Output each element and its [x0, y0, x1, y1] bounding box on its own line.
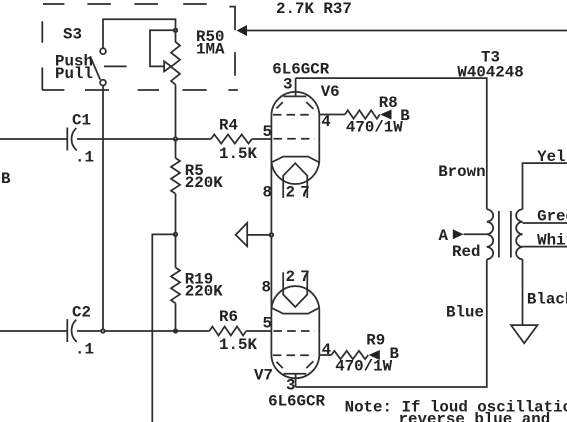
svg-text:7: 7: [300, 184, 309, 202]
heater / pins 2,7 of V7: [283, 272, 307, 307]
svg-text:reverse blue and: reverse blue and: [399, 411, 551, 422]
screen grid (pin 4) dashes V7: [273, 354, 314, 356]
switch S3: [100, 48, 106, 54]
wire switch top terminal to R50 top: [103, 19, 176, 48]
transformer T3 secondary winding: [516, 209, 522, 259]
svg-text:Yell: Yell: [537, 148, 567, 166]
svg-text:1.5K: 1.5K: [219, 336, 257, 354]
svg-text:R6: R6: [219, 308, 238, 326]
svg-text:Brown: Brown: [438, 163, 485, 181]
tube V7 6L6GCR envelope: [271, 286, 319, 309]
beam plate dashes V7: [276, 361, 313, 368]
transformer T3 core: [499, 211, 511, 258]
wire switch bottom terminal down to C2 line: [102, 86, 104, 331]
cathode V7: [271, 308, 319, 314]
svg-text:V6: V6: [321, 83, 340, 101]
svg-text:Pull: Pull: [55, 65, 93, 83]
cathode V6: [271, 157, 319, 163]
svg-text:470/1W: 470/1W: [346, 119, 403, 137]
R50 wiper arm and arrow: [150, 30, 176, 66]
wire secondary bottom lead (Black): [522, 259, 524, 325]
svg-text:1MA: 1MA: [196, 41, 225, 59]
svg-text:W404248: W404248: [457, 64, 523, 82]
capacitor C2: [66, 319, 68, 342]
wire node to bias rail (down to bottom edge): [152, 234, 175, 422]
arrow (open) cathode net: [236, 223, 248, 246]
svg-text:220K: 220K: [185, 283, 223, 301]
svg-text:2: 2: [286, 268, 295, 286]
svg-text:6L6GCR: 6L6GCR: [272, 61, 329, 79]
arrow (filled) pointing left into box, net R37: [237, 25, 248, 36]
svg-text:3: 3: [283, 76, 292, 94]
svg-text:4: 4: [321, 113, 331, 131]
heater / pins 2,7 of V6: [283, 163, 307, 198]
tube V6 6L6GCR envelope: [271, 92, 319, 114]
ground (secondary black lead): [511, 325, 538, 343]
resistor R4: [211, 135, 252, 144]
svg-text:2: 2: [286, 184, 295, 202]
control grid (pin 5) dashes V6: [274, 138, 315, 140]
wire cathode node to net arrow: [247, 234, 271, 236]
svg-text:470/1W: 470/1W: [335, 358, 392, 376]
plate (pin 3) of V7: [284, 373, 307, 375]
wire secondary top lead (Yellow): [523, 163, 567, 209]
arrow (filled) net B at R9: [369, 350, 380, 360]
svg-text:.1: .1: [75, 341, 94, 359]
wire from R37 (to right edge): [247, 30, 567, 32]
arrow (filled) net B at R8: [380, 110, 391, 120]
svg-text:R9: R9: [366, 332, 385, 350]
svg-text:C2: C2: [72, 304, 91, 322]
wire primary center tap: [464, 233, 487, 235]
svg-text:220K: 220K: [185, 174, 223, 192]
junction R5 / R19 node: [174, 233, 177, 236]
potentiometer R50 1MA: [171, 42, 180, 85]
wire R6 to V7 pin 5: [246, 330, 271, 332]
svg-text:8: 8: [262, 279, 271, 297]
resistor R19 220K: [171, 268, 180, 304]
svg-text:Black: Black: [527, 291, 567, 309]
corner solid piece top-right of box: [229, 7, 235, 31]
svg-text:3: 3: [286, 377, 295, 395]
svg-text:R8: R8: [379, 94, 398, 112]
junction R19 / C2 node: [174, 329, 177, 332]
svg-text:Whit: Whit: [537, 232, 567, 250]
transformer T3 primary winding: [487, 209, 493, 259]
screen grid (pin 4) dashes V6: [273, 114, 314, 116]
svg-text:S3: S3: [63, 26, 82, 44]
junction R4 / R5 / R50 node: [174, 137, 177, 140]
junction: R50 top / wiper / switch wire: [174, 29, 177, 32]
beam plate dashes V6: [276, 102, 313, 109]
svg-text:2.7K R37: 2.7K R37: [276, 0, 352, 18]
svg-text:C1: C1: [72, 112, 91, 130]
resistor R5 220K: [171, 158, 180, 194]
wire input to C1: [0, 138, 67, 140]
wire R4 to V6 pin 5: [252, 138, 272, 140]
resistor R6: [209, 327, 246, 336]
wire V7 plate to transformer primary bottom: [296, 259, 487, 387]
svg-text:4: 4: [322, 341, 332, 359]
svg-text:Blue: Blue: [446, 304, 484, 322]
svg-text:6L6GCR: 6L6GCR: [268, 393, 325, 411]
plate (pin 3) of V6: [284, 95, 307, 97]
junction cathode node: [270, 233, 273, 236]
junction switch wire / C2 line: [101, 329, 104, 332]
svg-text:Red: Red: [452, 243, 480, 261]
wire C1 to grid node: [77, 138, 211, 140]
svg-text:V7: V7: [254, 367, 273, 385]
capacitor C1: [66, 128, 68, 151]
svg-text:1.5K: 1.5K: [219, 145, 257, 163]
svg-text:7: 7: [300, 268, 309, 286]
wire C2 to R6: [77, 330, 209, 332]
resistor R8: [345, 110, 380, 118]
svg-text:A: A: [439, 227, 449, 245]
wire V7 pin 4 to R9: [319, 354, 331, 356]
enclosure dashed box (S3 / R50 assembly): [42, 4, 238, 90]
arrow (filled) net A center tap: [453, 229, 464, 239]
svg-text:Gree: Gree: [537, 208, 567, 226]
wire cathode bus (V6 pin 8 to V7 pin 8, tube left walls): [270, 114, 272, 356]
wire secondary tap (White): [523, 246, 567, 248]
wire input to C2: [0, 330, 67, 332]
svg-text:R4: R4: [219, 117, 238, 135]
wire secondary tap (Green): [523, 222, 567, 224]
svg-text:.1: .1: [75, 149, 94, 167]
control grid (pin 5) dashes V7: [274, 330, 315, 332]
wire V6 plate to transformer primary top: [296, 78, 487, 209]
svg-text:B: B: [1, 170, 11, 188]
wire V6 pin 4 to R8: [319, 114, 345, 116]
resistor R9: [331, 351, 368, 359]
